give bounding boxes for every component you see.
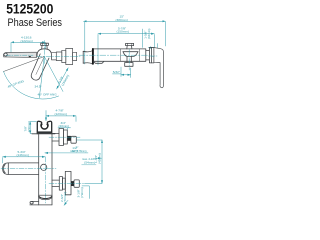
top valve assembly bbox=[52, 129, 76, 146]
aerator dot on spout bbox=[29, 56, 31, 57]
dim line 7-7/8 200mm bbox=[98, 29, 154, 65]
svg-text:(45mm): (45mm) bbox=[97, 153, 101, 164]
hand shower dim 5-3/4 146mm bbox=[3, 157, 46, 163]
bottom outlet left bbox=[30, 201, 39, 204]
angle ray C bbox=[44, 57, 63, 92]
centerline into cap bbox=[149, 55, 158, 57]
spout bbox=[3, 52, 36, 57]
angle arc bbox=[4, 72, 59, 100]
dim line 15in 380mm bbox=[84, 21, 166, 64]
svg-text:40° OFF ANG: 40° OFF ANG bbox=[38, 93, 58, 97]
diverter bell bowl bbox=[123, 52, 138, 57]
tube centerline bbox=[44, 157, 46, 203]
svg-text:(123mm): (123mm) bbox=[55, 112, 67, 116]
collar near bottom bbox=[39, 195, 52, 199]
svg-text:5/32": 5/32" bbox=[113, 70, 120, 74]
angle ray A bbox=[4, 57, 45, 72]
valve dome body bbox=[37, 49, 51, 59]
top valve centerline bbox=[49, 136, 80, 138]
svg-text:max. (178mm): max. (178mm) bbox=[70, 149, 87, 153]
shower centerline bbox=[1, 168, 56, 170]
right end cap bbox=[146, 47, 154, 63]
lever handle (front view) bbox=[154, 48, 164, 88]
diverter centerline bbox=[128, 50, 130, 71]
diagonal dim line bbox=[57, 68, 69, 89]
right reference dims bbox=[77, 140, 103, 183]
diverter knob (side view) bbox=[41, 43, 49, 49]
svg-text:(150mm): (150mm) bbox=[61, 74, 71, 87]
svg-text:(146mm): (146mm) bbox=[17, 153, 29, 157]
mini dim arrows at right cap bbox=[148, 44, 157, 58]
handle lever (side view pill) bbox=[31, 54, 49, 80]
body centerline bbox=[79, 54, 148, 56]
corner leader right of valve bbox=[82, 186, 89, 199]
collar lip under body bbox=[93, 62, 103, 64]
svg-text:(22mm): (22mm) bbox=[27, 121, 31, 132]
shower holder bracket bbox=[37, 121, 51, 133]
vertical tube bbox=[30, 134, 52, 205]
leader arrow below 2-3/4 text bbox=[64, 200, 68, 205]
svg-text:40° OP ANG: 40° OP ANG bbox=[7, 79, 25, 89]
svg-text:34.5°: 34.5° bbox=[35, 85, 43, 89]
svg-text:(150mm): (150mm) bbox=[117, 30, 129, 34]
wall connector side view bbox=[52, 48, 77, 64]
svg-text:(42mm): (42mm) bbox=[147, 29, 151, 40]
lower outlet stem and nut bbox=[125, 57, 133, 67]
svg-text:(122mm): (122mm) bbox=[21, 39, 33, 43]
hand shower bbox=[3, 163, 39, 175]
svg-text:Phase Series: Phase Series bbox=[8, 17, 63, 29]
svg-text:(380mm): (380mm) bbox=[116, 18, 128, 22]
spout centerline bbox=[5, 54, 34, 56]
bottom valve assembly bbox=[52, 171, 79, 194]
svg-text:(70mm): (70mm) bbox=[63, 192, 67, 203]
svg-text:5125200: 5125200 bbox=[6, 1, 53, 16]
centerline horizontal through wall connector bbox=[37, 55, 80, 57]
svg-text:(79mm): (79mm) bbox=[80, 187, 84, 198]
centerline vertical of valve bbox=[43, 41, 45, 64]
left inlet connector bbox=[83, 51, 92, 64]
bottom valve centerline bbox=[49, 182, 85, 184]
bracket base bar bbox=[37, 131, 52, 133]
dim line 4-13/16 (122mm) bbox=[11, 42, 45, 53]
angle ray B bbox=[39, 57, 44, 98]
bold flange nut bbox=[92, 49, 94, 64]
diverter knob (front view) bbox=[126, 43, 134, 49]
mounting circle bbox=[41, 164, 47, 170]
svg-text:(20mm): (20mm) bbox=[59, 124, 70, 128]
faucet body (front view) bbox=[93, 49, 146, 61]
dim 4-7/8 123mm bbox=[46, 111, 76, 122]
left bracket dim 7/8 22mm bbox=[30, 122, 36, 134]
dim 5/32 below outlet bbox=[113, 67, 131, 78]
bracket cradle inner bbox=[41, 124, 47, 129]
